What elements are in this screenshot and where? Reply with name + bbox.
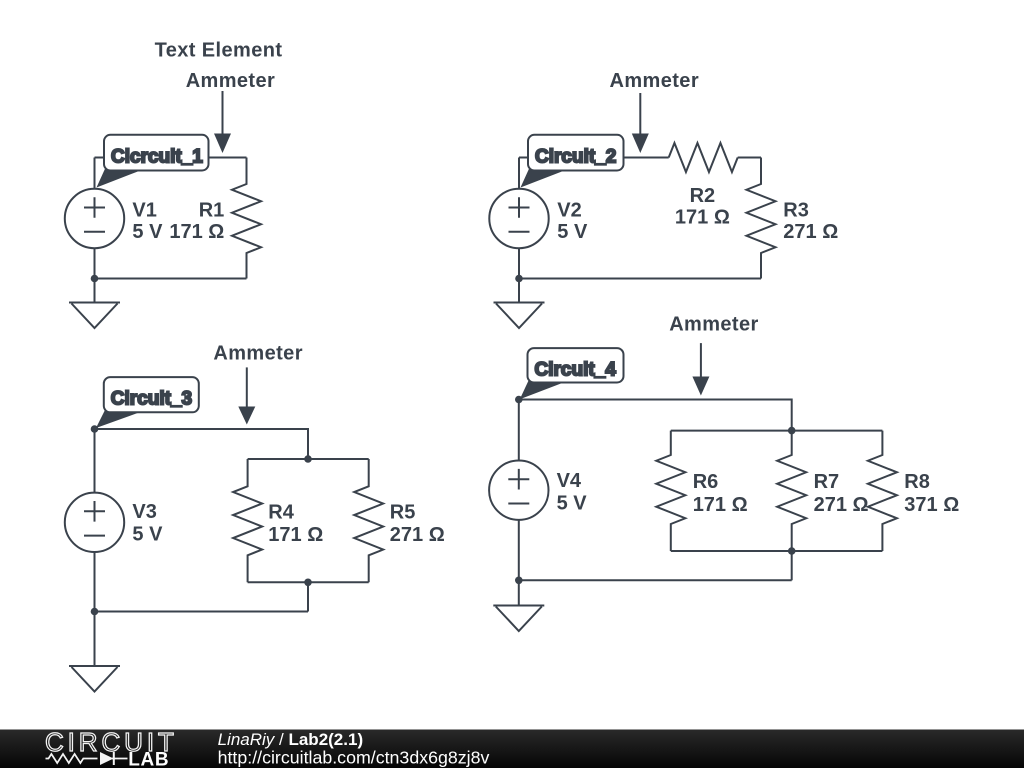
- svg-text:Ammeter: Ammeter: [669, 313, 759, 335]
- svg-text:R6: R6: [693, 471, 719, 493]
- svg-text:Circuit_4: Circuit_4: [535, 360, 617, 381]
- svg-text:271 Ω: 271 Ω: [814, 494, 869, 516]
- svg-text:R3: R3: [783, 199, 809, 221]
- svg-text:R2: R2: [690, 185, 716, 207]
- svg-text:Text Element: Text Element: [155, 40, 283, 62]
- svg-text:R4: R4: [268, 502, 294, 524]
- svg-text:R5: R5: [390, 502, 416, 524]
- svg-text:171 Ω: 171 Ω: [268, 524, 323, 546]
- svg-text:R1: R1: [199, 199, 225, 221]
- svg-text:LinaRiy / Lab2(2.1): LinaRiy / Lab2(2.1): [218, 730, 364, 749]
- svg-text:V1: V1: [132, 199, 156, 221]
- svg-text:271 Ω: 271 Ω: [390, 524, 445, 546]
- svg-text:5 V: 5 V: [557, 221, 588, 243]
- svg-text:R7: R7: [814, 471, 840, 493]
- svg-text:Ammeter: Ammeter: [186, 70, 276, 92]
- svg-text:5 V: 5 V: [132, 221, 163, 243]
- svg-text:V4: V4: [557, 470, 582, 492]
- svg-text:171 Ω: 171 Ω: [169, 221, 224, 243]
- svg-text:5 V: 5 V: [557, 492, 588, 514]
- svg-text:171 Ω: 171 Ω: [693, 494, 748, 516]
- svg-text:V2: V2: [557, 199, 581, 221]
- svg-text:5 V: 5 V: [132, 524, 163, 546]
- svg-text:Cicrcuit_1: Cicrcuit_1: [111, 146, 203, 167]
- svg-text:Ammeter: Ammeter: [213, 343, 303, 365]
- svg-text:Ammeter: Ammeter: [610, 70, 700, 92]
- svg-text:371 Ω: 371 Ω: [904, 494, 959, 516]
- svg-text:V3: V3: [132, 501, 156, 523]
- svg-text:171 Ω: 171 Ω: [675, 207, 730, 229]
- svg-text:Circuit_2: Circuit_2: [535, 146, 616, 167]
- svg-text:LAB: LAB: [128, 750, 169, 768]
- svg-text:Circuit_3: Circuit_3: [111, 389, 192, 410]
- svg-text:271 Ω: 271 Ω: [783, 221, 838, 243]
- svg-text:http://circuitlab.com/ctn3dx6g: http://circuitlab.com/ctn3dx6g8zj8v: [218, 747, 490, 767]
- svg-text:R8: R8: [904, 471, 930, 493]
